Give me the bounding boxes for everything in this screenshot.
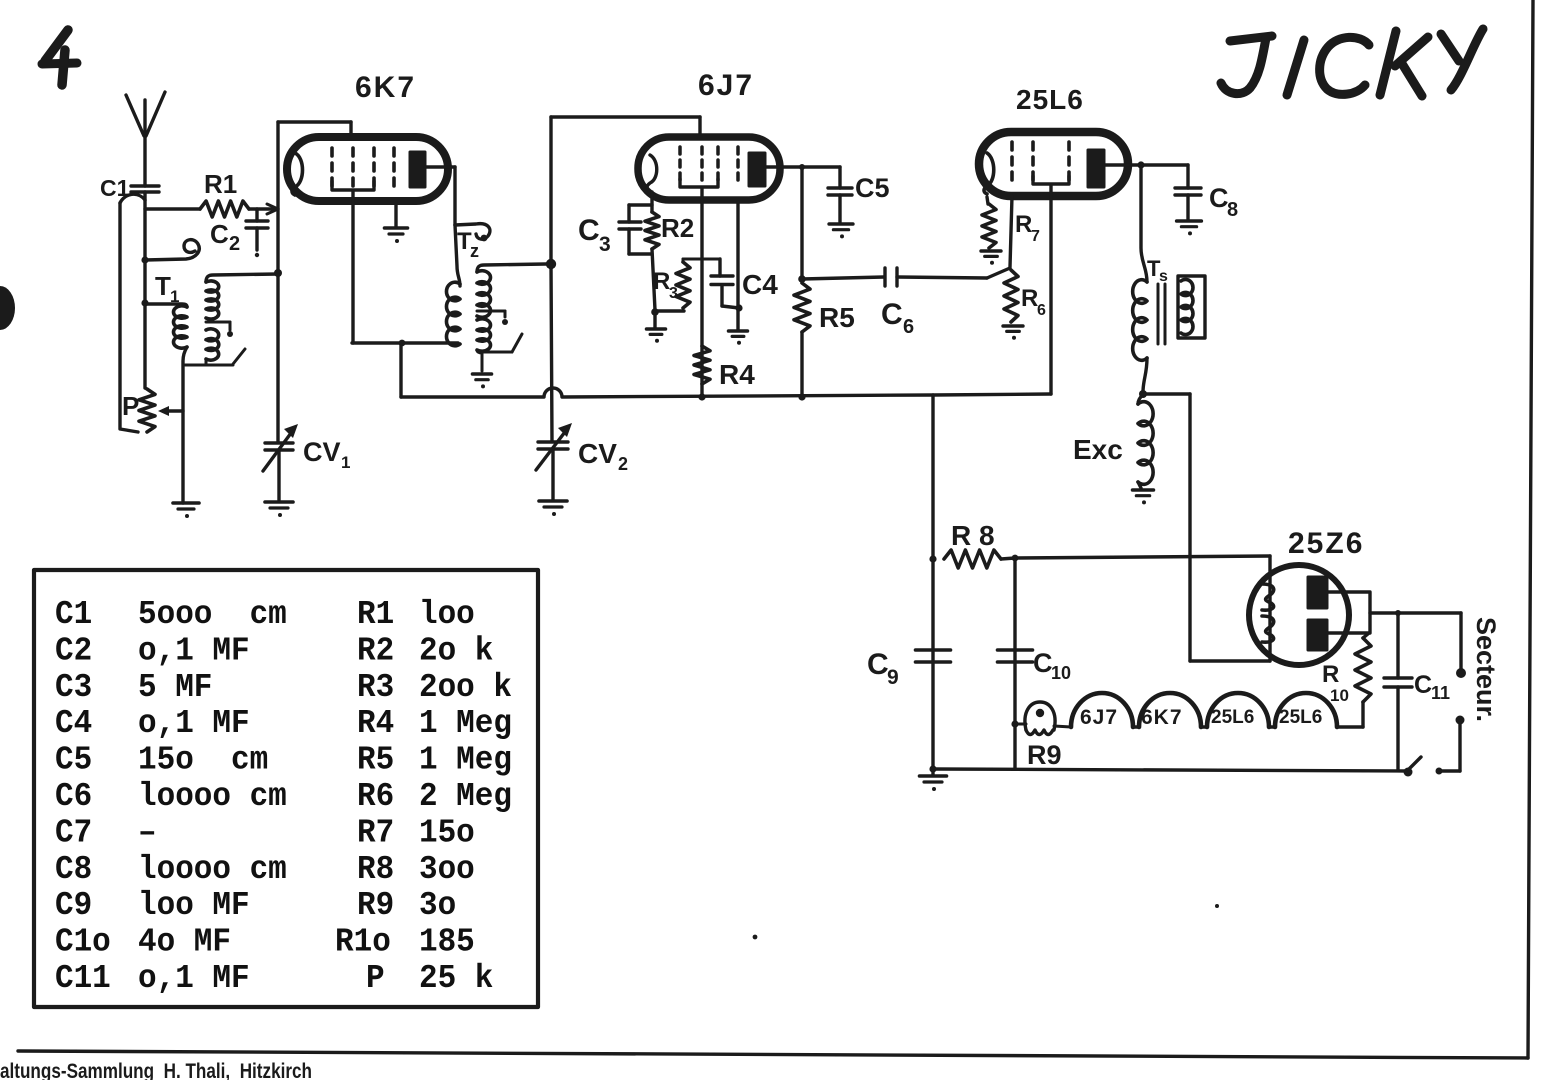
node R9 [1011,720,1018,727]
svg-text:loooo cm: loooo cm [138,777,287,815]
capacitor C10 branch [1013,558,1016,769]
node anode Ts [1137,161,1144,168]
tube 25L6 envelope [979,132,1128,196]
svg-text:R 8: R 8 [951,520,995,551]
antenna [126,95,144,136]
node C10 top [1012,555,1019,562]
svg-text:3: 3 [599,233,611,256]
heater 25L6 a [1201,725,1207,728]
svg-text:C8: C8 [55,850,92,888]
25L6 screen bracket [1033,176,1069,184]
svg-text:R3: R3 [357,668,394,706]
svg-text:C: C [578,214,600,247]
6K7 ground stub [394,205,397,227]
tube 6K7 envelope [287,137,448,201]
svg-text:185: 185 [419,923,475,961]
hook wire to left branch [120,194,145,203]
Tz primary [455,225,460,286]
svg-text:6K7: 6K7 [1141,706,1183,729]
node R8 [929,555,936,562]
page number 4 [45,30,68,61]
main vertical to CV1 [276,122,279,442]
curl wire C2 node [145,240,199,260]
svg-text:C: C [1209,183,1229,213]
capacitor C5 [838,167,841,188]
node rail 6J7 cathode [698,393,705,400]
svg-text:2oo k: 2oo k [419,668,512,706]
svg-text:R1: R1 [357,595,394,633]
svg-text:C: C [1033,648,1053,678]
svg-text:R: R [653,268,670,295]
svg-text:R5: R5 [819,302,855,333]
svg-text:25L6: 25L6 [1211,707,1254,728]
25Z6 anode b [1308,620,1327,650]
P slider arrow [163,409,183,412]
ground R2 [653,312,656,328]
node rail drop [399,340,406,347]
svg-text:R7: R7 [357,813,394,851]
resistor R6 [1004,270,1018,322]
T1 tap and switch [206,321,230,324]
6J7 cathode arc [647,155,657,191]
wire anode drop [800,167,803,279]
Ts primary feed [1141,165,1147,282]
Ts primary coil [1133,280,1147,361]
svg-text:z: z [470,241,479,261]
capacitor C9 [916,648,951,652]
svg-text:C5: C5 [855,173,890,203]
ground C4 [729,329,748,333]
svg-text:2 Meg: 2 Meg [419,777,512,815]
svg-text:R4: R4 [357,704,394,742]
capacitor C11 [1395,610,1401,616]
svg-text:3: 3 [669,285,678,302]
node anode R5 [798,275,806,283]
wire Exc to rectifier box [1143,392,1190,395]
svg-text:C: C [867,648,889,681]
svg-text:–: – [138,813,157,851]
svg-text:5ooo cm: 5ooo cm [138,595,287,633]
ground T1 [173,501,199,505]
svg-text:25L6: 25L6 [1016,84,1084,115]
lamp R9 [1015,723,1026,726]
svg-text:1 Meg: 1 Meg [419,704,512,742]
wire antenna column [143,192,146,388]
6J7 suppressor lead [736,202,739,330]
6J7 anode [749,153,765,186]
svg-text:C9: C9 [55,886,92,924]
svg-text:C11: C11 [55,959,111,997]
svg-text:6: 6 [1037,302,1046,319]
svg-text:C6: C6 [55,777,92,815]
bottom supply rail [933,769,1408,771]
svg-text:1: 1 [341,453,350,472]
svg-text:6J7: 6J7 [698,69,754,102]
svg-text:5 MF: 5 MF [138,668,212,706]
svg-text:R: R [1322,661,1339,688]
6K7 anode [410,152,425,187]
25L6 anode lead [1104,163,1188,166]
capacitor C2 [255,209,258,221]
capacitor C6 [802,277,884,279]
svg-text:R9: R9 [1027,740,1062,770]
svg-text:Exc: Exc [1073,434,1123,465]
svg-text:Secteur.: Secteur. [1471,617,1501,722]
svg-text:CV: CV [303,437,341,467]
tube 25Z6 envelope [1249,565,1349,665]
25Z6 plate box [1327,592,1370,633]
svg-text:C4: C4 [55,704,92,742]
resistor R10 [1355,638,1371,702]
svg-text:6J7: 6J7 [1080,706,1118,729]
svg-text:o,1 MF: o,1 MF [138,959,250,997]
capacitor C1 [131,184,159,187]
node C4 suppressor [735,304,742,311]
svg-text:10: 10 [1330,686,1349,705]
svg-text:6: 6 [903,316,914,338]
wire T1 bottom to ground [183,347,187,503]
svg-text:C7: C7 [55,813,92,851]
6J7 grid top rail [551,115,700,118]
Ts core [1157,284,1160,344]
wire rectifier output [1370,611,1461,614]
node grid 6J7 [546,259,556,269]
25L6 cathode arc [984,153,994,194]
svg-text:C5: C5 [55,741,92,779]
25L6 anode [1088,150,1104,187]
svg-text:altungs-Sammlung H. Thali, H: altungs-Sammlung H. Thali, Hitzkirch [0,1060,312,1080]
node B [141,299,148,306]
node R2 R3 ground [651,308,659,316]
svg-text:P: P [366,959,385,997]
heater 6J7 [1071,693,1133,727]
svg-text:11: 11 [1431,683,1450,703]
mains terminal lower [1456,716,1465,725]
resistor R4 [694,346,710,384]
title JICKY [1230,36,1272,41]
svg-text:o,1 MF: o,1 MF [138,704,250,742]
heater 6K7 [1133,725,1139,728]
svg-text:R4: R4 [719,359,755,390]
25Z6 anode a [1308,577,1327,608]
svg-text:25L6: 25L6 [1279,707,1322,728]
resistor R5 [794,283,810,332]
svg-text:P: P [122,391,139,421]
svg-text:10: 10 [1051,663,1071,683]
svg-text:R2: R2 [357,631,394,669]
speck dots [753,935,758,940]
transformer T1 secondary [206,274,278,282]
svg-text:25Z6: 25Z6 [1288,527,1364,560]
svg-text:R9: R9 [357,886,394,924]
svg-text:3oo: 3oo [419,850,475,888]
capacitor C8 [1186,165,1189,188]
svg-text:9: 9 [887,666,899,689]
bottom border line [18,1051,1528,1058]
svg-text:C4: C4 [742,269,778,300]
grid return rail [401,388,1051,397]
6K7 anode lead [425,165,455,168]
svg-text:T: T [155,271,171,301]
Tz tap and switch [477,310,505,313]
capacitor C4 [718,259,721,276]
wire grid cap 6K7 [278,120,351,123]
node Ts Exc [1139,390,1147,398]
svg-text:15o cm: 15o cm [138,741,268,779]
svg-text:C: C [1414,671,1432,699]
svg-text:3o: 3o [419,886,456,924]
resistor R1 [145,207,200,210]
25L6 grid lead [1010,196,1012,267]
svg-text:C1: C1 [55,595,92,633]
Tz secondary [477,264,546,272]
tube 6J7 envelope [638,137,780,200]
svg-text:6K7: 6K7 [355,71,416,104]
node rail R5 [798,393,805,400]
25L6 screen lead [1049,185,1052,394]
resistor R7 [987,197,988,204]
svg-text:R2: R2 [661,213,694,243]
wire left branch [120,203,138,432]
svg-text:C2: C2 [55,631,92,669]
right border line [1528,0,1533,1058]
svg-text:CV: CV [578,438,617,469]
field coil Exc [1138,394,1143,404]
svg-text:R1: R1 [204,169,237,199]
svg-text:2o k: 2o k [419,631,493,669]
wire 6K7 cathode rail [352,341,458,344]
heater 25L6 b [1269,725,1275,728]
value table text [55,595,512,997]
6K7 grid dashes [330,148,334,189]
svg-text:R8: R8 [357,850,394,888]
6K7 cathode bracket [332,181,374,190]
svg-text:4o MF: 4o MF [138,923,231,961]
resistor R8 [944,550,1001,568]
svg-text:o,1 MF: o,1 MF [138,631,250,669]
variable capacitor CV2 [538,440,568,443]
value table box [34,570,538,1007]
svg-text:R1o: R1o [335,923,391,961]
wire grid column 6J7 [549,117,552,264]
resistor R2 [645,212,659,249]
svg-text:R: R [1021,285,1038,312]
svg-text:R6: R6 [357,777,394,815]
mains terminal upper [1456,668,1466,678]
svg-text:C3: C3 [55,668,92,706]
6J7 grid dashes [678,147,682,186]
6J7 anode lead [765,165,840,168]
svg-text:2: 2 [229,233,240,255]
6K7 cathode lead [351,191,354,343]
wire R8 to rectifier [1015,556,1270,558]
6K7 cathode arc [292,153,303,195]
ground Tz [473,372,492,376]
svg-text:15o: 15o [419,813,475,851]
potentiometer P [139,389,155,432]
svg-text:25 k: 25 k [419,959,493,997]
svg-text:R5: R5 [357,741,394,779]
node C9 ground [929,765,936,772]
Ts secondary coil [1181,279,1193,334]
variable capacitor CV1 [265,441,293,444]
svg-text:C1o: C1o [55,923,111,961]
svg-text:R: R [1015,211,1032,238]
svg-text:7: 7 [1031,228,1040,245]
ground C9 rail [931,769,934,775]
transformer T1 primary [145,304,187,307]
svg-text:loo: loo [419,595,475,633]
svg-text:1 Meg: 1 Meg [419,741,512,779]
junction arrowhead at grid wire [267,204,278,214]
punch-hole blob left edge [0,286,15,330]
Tz curl [455,224,490,240]
wire rail to C9 branch [931,395,934,769]
25L6 grid dashes [1010,142,1014,183]
switch [1404,768,1413,777]
node A [141,256,148,263]
svg-text:s: s [1159,268,1168,285]
capacitor C3 [650,192,653,212]
6J7 cathode lead [700,188,703,397]
25Z6 cathode arcs [1262,584,1274,610]
speaker voice coil box [1178,276,1205,338]
svg-text:C: C [210,219,229,249]
svg-text:loooo cm: loooo cm [138,850,287,888]
svg-text:8: 8 [1227,199,1238,221]
svg-text:C: C [881,298,903,331]
node grid 6K7 [274,269,282,277]
svg-text:loo MF: loo MF [138,886,250,924]
resistor R3 [655,309,684,312]
6J7 cathode bracket [680,179,718,187]
svg-text:2: 2 [618,454,628,474]
